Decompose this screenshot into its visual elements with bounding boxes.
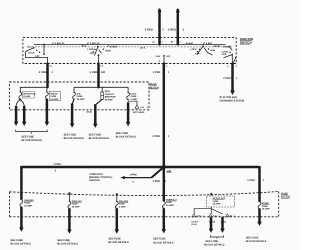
svg-text:BLOCK DETAILS: BLOCK DETAILS	[153, 241, 174, 244]
svg-text:BLOCK DETAILS: BLOCK DETAILS	[57, 243, 78, 246]
wire 3 ORN to wiper fuse	[46, 64, 49, 88]
pin labels	[50, 60, 238, 68]
splice wiper fork	[19, 99, 21, 101]
arrow radio fuse out	[45, 99, 50, 126]
pin C1 ignition switch	[46, 62, 49, 65]
svg-text:2 PNK: 2 PNK	[153, 135, 161, 138]
svg-text:25 AMP: 25 AMP	[213, 203, 221, 206]
label box WIPER FUSE 25 AMP	[22, 92, 34, 98]
svg-text:RUN: RUN	[211, 49, 216, 52]
svg-text:140 A: 140 A	[140, 47, 146, 50]
svg-text:RUN: RUN	[156, 55, 161, 58]
arrow gauge fuse out	[19, 207, 24, 232]
label 1 PNK 1 right	[247, 179, 264, 182]
svg-text:OFF: OFF	[90, 52, 95, 55]
bus contact ticks	[53, 43, 205, 45]
svg-text:ELEC: ELEC	[131, 92, 137, 95]
svg-text:1 PNK: 1 PNK	[129, 174, 137, 177]
arrow elec fuse out	[126, 102, 131, 126]
label TURN B.U. FUSE 20 AMP	[166, 198, 177, 207]
svg-text:3 ORN: 3 ORN	[39, 71, 47, 74]
svg-text:FUSE: FUSE	[213, 200, 219, 203]
svg-text:LOCK: LOCK	[28, 52, 35, 55]
svg-text:2 RED: 2 RED	[168, 28, 176, 32]
label see fuse block details 4	[116, 132, 137, 139]
label 2 RED 1	[168, 28, 185, 32]
fuse GAUGE 10A	[20, 200, 23, 207]
label RADIO FUSE 10 AMP right	[262, 202, 270, 211]
pin labels feed wires	[152, 40, 182, 43]
fuse TURN BU 20A	[162, 201, 165, 208]
contact dots mid-right wiper	[197, 45, 209, 52]
labels mid-right wiper positions	[190, 45, 221, 56]
labels middle wiper positions	[82, 44, 118, 55]
label FUSE BLOCK lower	[281, 192, 290, 198]
splice S8B	[162, 165, 166, 169]
pin sub-box feed	[210, 193, 212, 195]
svg-text:FUSE: FUSE	[72, 203, 78, 206]
svg-text:3 PNK: 3 PNK	[153, 71, 161, 74]
arrow A22 out	[220, 217, 225, 233]
labels left wiper positions	[27, 45, 40, 57]
wire stub ign gen	[116, 194, 118, 201]
fuse RADIO 10A right	[258, 202, 261, 209]
arrow cig fuse out	[70, 99, 75, 128]
node B1 (feed 1 at box edge)	[158, 36, 161, 39]
wire sub-box output bus	[194, 206, 211, 214]
pin radio fuse right	[258, 191, 260, 193]
sub-box HT RLY ACC (dashed)	[207, 196, 235, 207]
wire stub cig	[73, 87, 75, 92]
contact dots left wiper	[33, 44, 45, 55]
label 4 A1 1	[140, 106, 149, 109]
fuse block upper (dashed)	[9, 82, 149, 110]
svg-text:FUSE: FUSE	[119, 203, 125, 206]
svg-text:OFF: OFF	[35, 55, 40, 58]
label see fuse block details 1	[22, 135, 43, 142]
label 3 ORN 1	[39, 71, 54, 74]
label 3 ORN 340	[90, 71, 106, 74]
wire to charging system 2 PNK	[230, 64, 235, 96]
pin ign gen fuse	[116, 193, 118, 195]
svg-text:SEE FUSE: SEE FUSE	[10, 239, 23, 242]
svg-text:3 RED: 3 RED	[145, 28, 153, 32]
svg-text:BLOCK DETAILS: BLOCK DETAILS	[64, 137, 85, 140]
svg-text:4 AMP: 4 AMP	[119, 206, 126, 209]
svg-text:OFF: OFF	[195, 53, 200, 56]
node main wire at box edge	[162, 194, 165, 197]
svg-text:SWITCH: SWITCH	[240, 40, 252, 44]
svg-text:BLOCK DETAILS: BLOCK DETAILS	[116, 136, 137, 139]
label HT RLY ACC FUSE 25 AMP	[213, 197, 226, 206]
label see fuse block details 7	[108, 238, 129, 245]
svg-text:1 PNK: 1 PNK	[53, 163, 61, 166]
pin triangle 4 D1	[192, 214, 196, 217]
svg-text:10 AMP: 10 AMP	[262, 208, 270, 211]
svg-text:IGNITION: IGNITION	[89, 179, 100, 182]
svg-text:HT RLY: HT RLY	[192, 220, 200, 223]
fuse terminal dots	[20, 91, 261, 209]
bracket group left fuses	[16, 130, 48, 134]
svg-text:FUSE: FUSE	[131, 95, 137, 98]
svg-text:SEE FUSE: SEE FUSE	[57, 239, 70, 242]
svg-text:25 AMP: 25 AMP	[23, 95, 31, 98]
label PWR ACC FUSE 25 AMP	[72, 200, 83, 209]
svg-text:BLOCK DETAILS: BLOCK DETAILS	[204, 244, 225, 247]
switch wiper middle (LOCK/OFF/RUN/START)	[95, 46, 102, 63]
label FUSE BLOCK upper	[150, 83, 159, 90]
svg-text:BLOCK DETAILS: BLOCK DETAILS	[22, 139, 43, 142]
arrow pwr acc out	[67, 209, 72, 234]
label 1 PNK 1 computer	[129, 174, 137, 184]
wire drop to gauge fuse	[20, 166, 23, 200]
fuse IGN GEN 4A	[115, 201, 118, 208]
wire stub pwr acc	[68, 193, 70, 201]
arrow rdo breaker out	[93, 99, 102, 128]
label see fuse block details 9	[204, 240, 225, 247]
svg-text:10 AMP: 10 AMP	[24, 205, 32, 208]
svg-text:340: 340	[101, 71, 106, 74]
ignition switch box (dashed)	[23, 38, 236, 64]
svg-text:CHARGING SYSTEM: CHARGING SYSTEM	[220, 99, 245, 102]
wire pin D internal	[163, 56, 165, 64]
svg-text:BLOCK DETAILS: BLOCK DETAILS	[10, 243, 31, 246]
label 2 PNK 1 mid	[153, 135, 171, 138]
pin D ignition switch	[163, 62, 166, 65]
label 1 PNK 2 left	[53, 163, 61, 173]
svg-text:2 PNK: 2 PNK	[223, 77, 231, 80]
node rdo at box edge	[94, 109, 96, 111]
wire internal bus cig-rdo-elec	[74, 86, 128, 88]
wire stub rdo breaker	[101, 87, 103, 92]
node B3 (feed 2 at box edge)	[177, 36, 180, 39]
wire battery feed 2 RED	[176, 9, 179, 45]
fuse CIG 25A	[73, 92, 76, 99]
svg-text:SEE FUSE: SEE FUSE	[64, 133, 77, 136]
svg-text:RDO: RDO	[105, 90, 110, 93]
label 3 RED 1	[145, 28, 165, 32]
wire 3 ORN to cig/rdo fuses	[97, 64, 100, 88]
svg-text:START: START	[110, 45, 118, 48]
label IGNITION SWITCH	[240, 37, 253, 45]
svg-text:FUSE: FUSE	[77, 95, 83, 98]
svg-text:FUSE: FUSE	[50, 95, 56, 98]
label RDO CIRCUIT BREAKER 25 AMP	[105, 90, 116, 102]
svg-text:4 BAT A1: 4 BAT A1	[55, 42, 65, 45]
pin triangle 4A1	[135, 105, 139, 108]
svg-text:LOCK: LOCK	[190, 48, 197, 51]
svg-text:BLOCK DETAILS: BLOCK DETAILS	[89, 137, 110, 140]
wire battery feed 3 RED	[158, 9, 161, 45]
svg-text:25 AMP: 25 AMP	[77, 98, 85, 101]
svg-text:25 AMP: 25 AMP	[72, 206, 80, 209]
svg-text:RUN: RUN	[106, 49, 111, 52]
node feed cig/rdo	[97, 86, 99, 88]
fuse WIPER 25A	[19, 92, 22, 99]
label IGN GEN FUSE 4 AMP	[119, 200, 129, 209]
svg-text:4 BAT: 4 BAT	[206, 42, 213, 45]
svg-text:(BLK): (BLK)	[87, 110, 93, 113]
fuse RADIO 10A	[45, 92, 48, 99]
label GAUGES FUSE 10 AMP	[24, 199, 34, 208]
svg-text:OFF: OFF	[222, 53, 227, 56]
svg-text:START: START	[223, 46, 231, 49]
svg-text:(C81): (C81)	[192, 223, 197, 226]
label see fuse block details 6	[57, 239, 78, 246]
svg-text:LOCK: LOCK	[87, 48, 94, 51]
bracket group right pair	[210, 235, 223, 238]
label bus terminals	[55, 42, 213, 45]
svg-text:20 AMP: 20 AMP	[166, 204, 174, 207]
switch wiper right (START/RUN)	[224, 47, 237, 64]
start direction arrow middle	[107, 45, 109, 47]
label see fuse block details 8	[153, 238, 174, 245]
fuse PWR ACC 25A	[68, 201, 71, 208]
labels right wiper positions	[222, 46, 232, 56]
arrow to fuse details 2	[22, 106, 27, 126]
fuse ELEC 2A	[127, 93, 130, 100]
label see fuse block details 10	[246, 237, 267, 244]
mechanical linkage (dashed)	[32, 46, 232, 48]
label see fuse block details 3	[89, 133, 110, 140]
svg-text:ACC: ACC	[27, 45, 32, 48]
switch wiper left (ACC/LOCK/OFF)	[26, 45, 48, 64]
svg-text:2 AMP: 2 AMP	[131, 98, 138, 101]
label CIG FUSE 25 AMP	[77, 92, 85, 100]
wire sub-box drops	[211, 209, 222, 214]
node radio feed	[46, 86, 48, 88]
svg-text:START: START	[214, 45, 222, 48]
svg-text:25 AMP: 25 AMP	[105, 99, 113, 102]
svg-text:2 PNK: 2 PNK	[153, 180, 161, 183]
pin labels lower right	[196, 214, 235, 217]
svg-text:SEE FUSE: SEE FUSE	[153, 238, 166, 241]
svg-text:BLOCK DETAILS: BLOCK DETAILS	[246, 240, 267, 243]
label 3 PNK 1	[153, 71, 170, 74]
circuit breaker RDO	[101, 92, 104, 99]
svg-text:RADIO: RADIO	[50, 92, 57, 95]
svg-text:ACC: ACC	[82, 44, 87, 47]
label HT RLY (C81)	[192, 220, 200, 226]
svg-text:4 BAT A2: 4 BAT A2	[90, 42, 100, 45]
fuse block lower (dashed, scan-curved top)	[10, 192, 279, 217]
wire 1 PNK horizontal run	[21, 166, 258, 169]
arrow to fuse details 1	[14, 106, 19, 126]
wire to wiper fuse	[20, 87, 47, 92]
pin pwr acc fuse	[68, 192, 70, 194]
wire main ignition feed 3 PNK	[163, 64, 166, 168]
wire fork from wiper fuse	[16, 99, 24, 106]
svg-text:CIG: CIG	[77, 92, 81, 95]
svg-text:SEE FUSE: SEE FUSE	[108, 238, 121, 241]
svg-text:CIRCUIT: CIRCUIT	[105, 93, 115, 96]
label box RADIO FUSE 10 AMP	[49, 91, 60, 100]
wire elec branch to spare pin	[128, 99, 137, 104]
svg-text:NOT USED: NOT USED	[133, 111, 145, 114]
label 2 PNK 1 charging	[223, 77, 238, 80]
svg-text:BREAKER: BREAKER	[105, 96, 116, 99]
svg-text:SEE FUSE: SEE FUSE	[89, 133, 102, 136]
svg-text:1 PNK: 1 PNK	[247, 179, 255, 182]
pin triangle B1	[225, 214, 229, 217]
wire sub-box feed	[210, 194, 212, 196]
arrow ign gen out	[115, 209, 120, 234]
svg-text:10 AMP: 10 AMP	[50, 98, 58, 101]
label COMPUTER (ENGINE CONTROL) IGNITION	[89, 173, 112, 182]
pin C3 ignition switch	[97, 62, 100, 65]
svg-text:BLOCK DETAILS: BLOCK DETAILS	[108, 241, 129, 244]
node bus contact 2	[177, 43, 179, 45]
arrow turn bu out	[162, 208, 167, 233]
contact dots middle wiper	[93, 46, 105, 56]
svg-text:SEE FUSE: SEE FUSE	[116, 132, 129, 135]
svg-text:FUSE: FUSE	[262, 205, 268, 208]
label 2 PNK 2 branch	[153, 180, 167, 183]
node bus contact 1	[158, 43, 160, 45]
label charging system	[220, 96, 245, 102]
wire drop 1 PNK right	[258, 166, 261, 202]
contact dot pin D internal	[163, 55, 165, 57]
contact dots right wiper	[229, 46, 237, 58]
arrow A21 out	[209, 217, 214, 233]
svg-text:3 ORN: 3 ORN	[90, 71, 98, 74]
pin triangle A21	[209, 214, 213, 217]
wire stub radio fuse	[46, 87, 48, 92]
wire stub elec fuse	[127, 87, 129, 92]
svg-text:FUSE: FUSE	[24, 202, 30, 205]
switch wiper mid-right (OFF/RUN)	[197, 46, 213, 55]
label see fuse block details 5	[10, 239, 31, 246]
svg-text:FUSE: FUSE	[166, 201, 172, 204]
svg-text:SEE FUSE: SEE FUSE	[246, 237, 259, 240]
pin A/C ignition switch	[231, 62, 234, 65]
wire internal battery bus	[34, 44, 226, 46]
label see fuse block details 2	[64, 133, 85, 140]
svg-text:A4 BAT: A4 BAT	[186, 42, 194, 45]
arrow radio right out	[257, 209, 262, 226]
wire branch to computer	[120, 167, 164, 179]
svg-text:SEE FUSE: SEE FUSE	[22, 135, 35, 138]
label ELEC FUSE 2 AMP	[131, 92, 138, 100]
wire drop main to turn fuse	[163, 167, 166, 201]
svg-text:LOCK: LOCK	[222, 50, 229, 53]
